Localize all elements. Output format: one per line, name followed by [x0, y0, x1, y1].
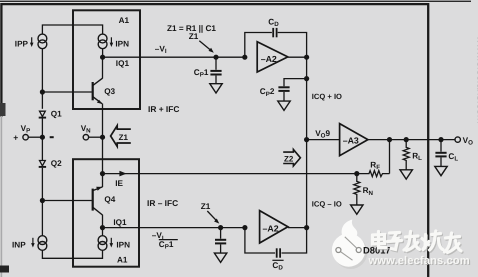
op-amp A3 [340, 124, 368, 156]
wire Q2 to Q4 base junction and INP [41, 168, 43, 236]
svg-text:IR – IFC: IR – IFC [147, 198, 178, 208]
子 [388, 233, 402, 250]
capacitor CD (upper) [273, 28, 276, 37]
wire IE node down to Q4 emitter [102, 174, 104, 187]
node IE [100, 171, 105, 176]
watermark logo (elecfans) [332, 220, 367, 270]
svg-text:Q4: Q4 [104, 195, 115, 204]
svg-text:Q2: Q2 [51, 159, 62, 168]
transistor Q3 [93, 78, 103, 104]
wire Q3 base [42, 91, 91, 93]
resistor RF [357, 140, 390, 177]
ground (CL) [435, 166, 447, 175]
box A1 (upper input buffer cell) [73, 10, 140, 109]
svg-text:www.elecfans.com: www.elecfans.com [475, 35, 478, 124]
svg-text:Z1: Z1 [201, 202, 211, 211]
svg-text:+: + [13, 132, 18, 142]
ground (RN) [351, 205, 363, 214]
wire VN terminal to node [89, 136, 103, 138]
友 [445, 233, 462, 253]
capacitor CP1 (upper) [210, 57, 221, 83]
wire A3 output to VO terminal [368, 139, 455, 141]
diode Q2 [39, 161, 46, 167]
wire IQ1 to lower IPN source [102, 228, 104, 236]
svg-text:IR + IFC: IR + IFC [148, 104, 179, 114]
node A2 lower input [242, 225, 247, 230]
IPN direction arrow (lower) [110, 238, 114, 248]
svg-text:A1: A1 [117, 256, 128, 265]
top edge artifact line [0, 1, 471, 2]
resistor RL [403, 140, 409, 170]
label CD (lower, overlined) [272, 260, 283, 271]
diode Q1 [39, 111, 46, 117]
label CP1 (lower, overlined) [159, 240, 178, 251]
ground (CP2) [278, 101, 290, 110]
op-amp A2 (upper) [257, 42, 288, 72]
svg-text:A1: A1 [119, 16, 130, 25]
node Z1 (lower) [218, 225, 223, 230]
IPP direction arrow [30, 37, 34, 47]
current source INP [38, 236, 47, 251]
svg-text:Q1: Q1 [51, 110, 62, 119]
svg-text:IQ1: IQ1 [116, 59, 130, 68]
impedance arrow Z1 (pointing left at VN line) [111, 126, 131, 147]
wire VO9 to A3 [307, 139, 340, 141]
wire main vertical bus [306, 57, 308, 227]
current source IPN (lower) [98, 236, 107, 251]
resistor RN [354, 174, 360, 205]
node output RF branch [387, 137, 392, 142]
wire left column (IPP to Q1) [41, 49, 43, 109]
wire -VI (upper) [103, 56, 245, 58]
node VN junction [100, 135, 105, 140]
left edge bottom artifact mark [0, 266, 9, 273]
wire VN node down to IE node [102, 137, 104, 173]
op-amp A2 (lower) [260, 211, 288, 243]
capacitor CD (lower) [277, 248, 280, 257]
current source IPN (upper) [98, 34, 107, 49]
烧 [422, 231, 443, 250]
svg-text:–A2: –A2 [261, 54, 277, 64]
IPN direction arrow (upper) [110, 37, 114, 47]
node output CL branch [438, 137, 443, 142]
node RF RN junction [354, 171, 359, 176]
left edge artifact mark [0, 103, 6, 116]
wire A2 lower output [288, 227, 307, 229]
wire IE feedback line to RF node [103, 173, 357, 175]
wire IPN to IQ1 node [102, 49, 104, 58]
node output RL branch [404, 137, 409, 142]
svg-text:IPN: IPN [115, 39, 129, 48]
svg-text:ICQ – IO: ICQ – IO [312, 199, 342, 208]
capacitor CP2 [278, 79, 306, 101]
svg-text:INP: INP [12, 240, 26, 249]
电 [373, 232, 387, 248]
Z1 annotation arrow (lower) [207, 211, 219, 224]
terminal VP [23, 135, 28, 140]
box A1 (lower input buffer cell) [73, 159, 139, 267]
watermark chinese characters [373, 231, 462, 253]
transistor Q4 [93, 187, 103, 215]
Z1 annotation arrow (upper) [199, 41, 214, 53]
svg-text:IE: IE [115, 179, 123, 188]
wire A2 output to loop node (upper) [288, 56, 307, 58]
svg-text:Z1: Z1 [119, 133, 129, 142]
node A2 lower output [304, 225, 309, 230]
node CP2 tap [304, 76, 309, 81]
node A2 upper input [242, 55, 247, 60]
svg-text:–A3: –A3 [343, 135, 359, 145]
node IQ1 (upper) [100, 55, 105, 60]
wire CD feedback loop (lower) [245, 228, 307, 253]
impedance arrow Z2 (pointing right) [283, 150, 300, 167]
ground (RL) [400, 170, 412, 179]
INP direction arrow [31, 238, 35, 248]
terminal VN [83, 135, 88, 140]
wire INP bottom link to lower IPN [42, 250, 102, 258]
ground (CP1 lower) [214, 253, 226, 262]
svg-text:Z2: Z2 [284, 155, 294, 164]
node Q3 base junction [40, 89, 45, 94]
svg-text:IQ1: IQ1 [113, 218, 127, 227]
wire Q4 collector to lower IQ1 node [102, 215, 104, 228]
svg-text:www.elecfans.com: www.elecfans.com [368, 255, 470, 267]
capacitor CP1 (lower) [215, 228, 226, 253]
capacitor CL [435, 140, 446, 167]
发 [404, 232, 420, 251]
wire top rail IPP-IPN [42, 25, 102, 34]
watermark chinese characters shadow [374, 232, 463, 254]
svg-text:IPP: IPP [15, 40, 29, 49]
wire Q1 to VP node [41, 119, 43, 161]
current source IPP [38, 34, 47, 49]
node A2 upper output [304, 55, 309, 60]
wire Q4 base [42, 200, 91, 202]
svg-text:–A2: –A2 [263, 224, 279, 234]
IE current arrowhead [119, 171, 126, 177]
node VO9 [304, 137, 309, 142]
wire Q3 emitter down to VN node [102, 104, 104, 138]
svg-text:IPN: IPN [116, 241, 130, 250]
node VP junction [40, 135, 45, 140]
wire CD feedback loop (upper) [245, 33, 307, 58]
svg-text:ICQ + IO: ICQ + IO [312, 92, 342, 101]
wire Q3 collector to IQ1 [102, 57, 104, 78]
node Q4 base junction [40, 198, 45, 203]
ground (CP1 upper) [210, 84, 222, 93]
terminal VO [455, 137, 460, 142]
minus sign right of VP node [50, 136, 54, 138]
node IQ1 (lower) [100, 225, 105, 230]
svg-text:Z1: Z1 [189, 32, 199, 41]
svg-text:Q3: Q3 [104, 87, 115, 96]
node Z1 (upper) [213, 55, 218, 60]
wire VP terminal to node [28, 136, 42, 138]
wire -VI (lower) [103, 227, 245, 229]
